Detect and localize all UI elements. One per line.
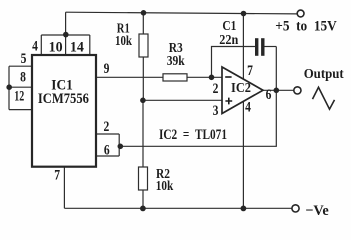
svg-text:6: 6	[104, 143, 110, 159]
node junction IC2 pin4 on bottom rail	[241, 206, 247, 212]
op-amp inverting input symbol	[225, 76, 231, 78]
wire IC1 pin 7 to bottom rail	[63, 167, 65, 209]
wire top supply rail	[66, 12, 298, 14]
resistor R1	[139, 34, 148, 57]
svg-text:+5 to 15V: +5 to 15V	[275, 19, 337, 35]
svg-text:22n: 22n	[219, 33, 238, 48]
op-amp non-inverting input symbol	[225, 98, 232, 105]
svg-text:ICM7556: ICM7556	[38, 91, 89, 107]
svg-text:10k: 10k	[115, 34, 132, 49]
node junction R1 top on rail	[141, 10, 147, 16]
terminal output	[294, 87, 301, 94]
svg-text:10k: 10k	[156, 179, 174, 194]
wire IC2 output	[263, 89, 294, 91]
svg-text:9: 9	[104, 61, 110, 77]
node junction IC2 pin7 on rail	[241, 11, 247, 17]
svg-text:12: 12	[14, 88, 24, 104]
wire feedback from IC2 output node down to IC1 pin 6	[119, 47, 276, 147]
wire bottom negative rail	[64, 207, 291, 209]
terminal +V supply	[297, 10, 304, 17]
capacitor C1 plates	[255, 38, 265, 56]
wire IC1 top pin bar (pins 4,10,14)	[41, 35, 90, 56]
svg-text:8: 8	[20, 70, 26, 86]
wire supply drop to IC1 pin bar	[65, 12, 67, 35]
svg-text:2: 2	[213, 81, 219, 97]
wire IC1 pin 9 to IC2 pin 2 through R3	[96, 76, 223, 78]
wire node A to IC2 pin 3	[143, 99, 223, 101]
node junction R2 on bottom rail	[140, 206, 146, 212]
wire node A down to R2	[142, 100, 144, 167]
wire C1 right lead	[265, 46, 277, 48]
IC1 ICM7556 body	[32, 55, 96, 167]
svg-text:6: 6	[266, 87, 272, 103]
svg-text:IC2 = TL071: IC2 = TL071	[159, 127, 227, 143]
resistor R3	[163, 74, 187, 81]
svg-text:2: 2	[104, 119, 110, 135]
svg-text:7: 7	[247, 63, 253, 79]
svg-text:39k: 39k	[167, 54, 185, 69]
svg-text:4: 4	[245, 99, 251, 115]
wire IC2 pin 4 to bottom rail	[242, 101, 244, 208]
node junction output feedback	[274, 88, 280, 94]
wire IC2 pin 7 supply lead	[242, 13, 244, 78]
node junction C1 branch on pin2 wire	[209, 75, 215, 81]
svg-text:14: 14	[70, 39, 84, 55]
wire IC1 left bracket (pins 5,8,12 tied)	[9, 66, 32, 109]
svg-text:3: 3	[213, 103, 219, 119]
svg-text:7: 7	[54, 168, 60, 184]
node junction pin 8 on left bracket	[6, 84, 12, 90]
svg-text:IC2: IC2	[231, 81, 251, 96]
svg-text:10: 10	[49, 39, 63, 55]
wire R1 top lead	[142, 13, 144, 34]
terminal -Ve	[292, 205, 299, 212]
node junction supply drop on pin bar	[63, 32, 69, 38]
resistor R2	[139, 167, 148, 190]
wire IC1 pins 2,6 tie loop	[96, 134, 119, 156]
svg-text:−Ve: −Ve	[305, 203, 329, 219]
svg-text:Output: Output	[304, 66, 344, 81]
node A junction R1/R2/pin3	[140, 98, 146, 104]
op-amp U1 IC2 triangle	[222, 67, 263, 114]
svg-text:5: 5	[21, 51, 27, 67]
node junction pins 2-6 tap	[118, 144, 124, 150]
wire R1 bottom lead to node A	[142, 57, 144, 100]
svg-text:C1: C1	[222, 19, 236, 34]
wire R2 bottom lead	[142, 190, 144, 208]
waveform triangle-wave output symbol	[313, 87, 335, 109]
wire C1 branch from inverting input node	[212, 47, 256, 78]
svg-text:4: 4	[32, 38, 38, 54]
